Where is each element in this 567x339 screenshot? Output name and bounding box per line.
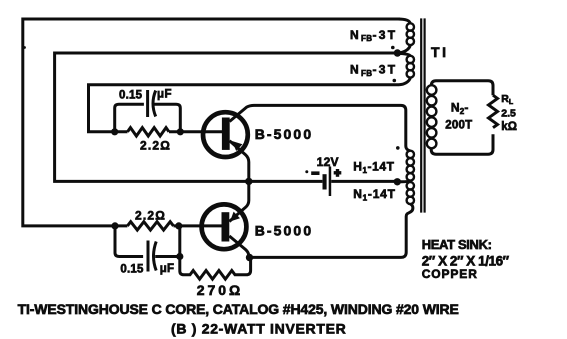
junction node: upper RC right: [177, 128, 184, 135]
svg-text:μF: μF: [157, 88, 172, 100]
junction node: primary center tap: [394, 178, 401, 185]
transistor Q2 emitter arrow (PNP, points to base): [230, 212, 240, 222]
svg-text:NFB-3T: NFB-3T: [350, 63, 397, 78]
transistor Q2 circle: [202, 204, 247, 249]
resistor R3 270 ohm branch (vertical from base node, zigzag, up to collector node): [180, 226, 251, 279]
svg-text:(B ) 22-WATT INVERTER: (B ) 22-WATT INVERTER: [171, 320, 346, 336]
junction node: lower RC right: [175, 222, 182, 229]
junction node: lower cap / 270 ohm: [176, 253, 183, 260]
transformer T1 primary H1-14T loops: [407, 151, 414, 158]
speck near battery minus: [305, 170, 308, 173]
svg-text:N2-: N2-: [451, 101, 469, 116]
transistor Q1 collector wire to primary top: [230, 105, 411, 150]
wire: lower base segment into transistor Q2: [174, 224, 222, 227]
svg-text:2.2Ω: 2.2Ω: [135, 208, 166, 222]
junction node: upper RC left: [111, 128, 118, 135]
speck on left outer wire: [23, 46, 26, 49]
capacitor C1 plates (0.15 uF upper): [146, 90, 149, 117]
svg-text:TI: TI: [431, 44, 449, 60]
wire: inner feedback loop (winding2 bottom to upper base run): [89, 85, 400, 132]
capacitor C1 branch wires (upper 0.15uF): [115, 104, 181, 132]
transistor Q1 base bar: [222, 118, 230, 150]
polarity dot winding NFB-1: [391, 46, 395, 50]
polarity dot winding NFB-2: [393, 79, 397, 83]
transformer T1 primary center tap stub: [397, 180, 410, 184]
transformer T1 winding NFB-1 (top 3T) lead-in and loops: [398, 19, 410, 23]
junction node: Q2 collector output: [246, 254, 253, 261]
svg-text:0.15: 0.15: [120, 264, 144, 276]
junction node: NFB center tap: [394, 49, 401, 56]
wire: outer feedback loop (winding1 top, left side, lower base run): [23, 19, 400, 226]
wire: upper base segment into transistor Q1: [169, 130, 222, 133]
wire: battery plus to primary center tap: [331, 180, 396, 183]
svg-text:B-5000: B-5000: [255, 222, 314, 238]
svg-text:HEAT SINK:: HEAT SINK:: [422, 237, 492, 252]
svg-text:2.5: 2.5: [501, 108, 516, 120]
transistor Q2 base bar: [222, 212, 230, 241]
svg-text:H1-14T: H1-14T: [353, 160, 394, 175]
transistor Q1 emitter arrow (PNP, points to base): [232, 141, 242, 151]
svg-text:TI-WESTINGHOUSE C CORE, CATALO: TI-WESTINGHOUSE C CORE, CATALOG #H425, W…: [18, 301, 459, 317]
svg-text:μF: μF: [160, 263, 174, 275]
label minus (drawn): [311, 171, 319, 175]
transistor Q1 emitter wire down to common node: [230, 141, 249, 182]
svg-text:kΩ: kΩ: [501, 121, 517, 133]
wire: Q2 collector node to primary bottom: [249, 204, 413, 258]
junction node: emitters / battery minus: [245, 178, 252, 185]
transistor Q2 collector wire down to output node: [229, 236, 249, 258]
svg-text:2.2Ω: 2.2Ω: [140, 139, 171, 153]
svg-text:12V: 12V: [317, 155, 339, 169]
transformer T1 winding NFB-2 (second 3T) loops and lead-out: [399, 53, 411, 56]
svg-text:COPPER: COPPER: [422, 267, 478, 281]
svg-text:NFB-3T: NFB-3T: [350, 28, 397, 43]
transformer T1 primary N1-14T loops: [407, 182, 414, 189]
battery B1 positive plate (long): [329, 167, 332, 197]
resistor R1 2.2 ohm (upper) zigzag: [128, 128, 169, 136]
transformer T1 secondary N2 loop box with RL: [431, 81, 493, 95]
svg-text:0.15: 0.15: [119, 89, 143, 101]
label plus (drawn): [334, 171, 342, 174]
wire: center-tap loop (NFB tap to battery minus): [55, 53, 395, 181]
battery B1 negative plate (short): [323, 174, 327, 189]
transistor Q2 emitter wire up to common node: [229, 181, 249, 221]
svg-text:200T: 200T: [445, 120, 472, 132]
transformer T1 secondary N2 loops: [427, 85, 437, 95]
resistor R2 2.2 ohm (lower) zigzag: [127, 222, 173, 230]
polarity dot primary H1: [396, 146, 400, 150]
resistor RL 2.5k zigzag on right edge: [489, 95, 498, 128]
svg-text:270Ω: 270Ω: [197, 282, 244, 298]
capacitor C2 plates (0.15 uF lower): [147, 241, 150, 272]
capacitor C2 branch wires (lower 0.15uF): [115, 226, 180, 257]
junction node: lower RC left: [111, 222, 118, 229]
svg-text:N1-14T: N1-14T: [353, 187, 396, 202]
transformer T1 core lines: [420, 18, 422, 212]
transistor Q1 circle: [203, 112, 248, 157]
svg-text:B-5000: B-5000: [255, 126, 314, 142]
